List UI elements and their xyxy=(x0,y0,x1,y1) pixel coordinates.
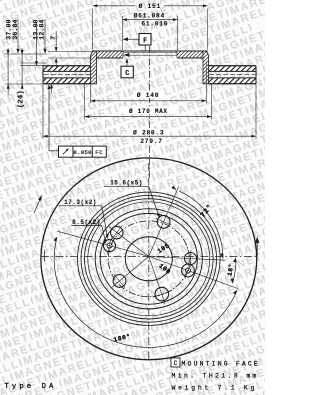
svg-text:Type DA: Type DA xyxy=(5,383,57,391)
svg-text:Min. TH21.8 mm: Min. TH21.8 mm xyxy=(172,373,259,380)
svg-text:7: 7 xyxy=(50,36,57,40)
svg-text:C: C xyxy=(174,360,178,367)
svg-text:Ø61.084: Ø61.084 xyxy=(134,12,165,20)
svg-text:C: C xyxy=(125,70,130,78)
svg-text:Weight 7.1 Kg: Weight 7.1 Kg xyxy=(172,385,258,392)
svg-text:Ø 140: Ø 140 xyxy=(137,91,159,99)
svg-text:(24): (24) xyxy=(18,90,26,108)
svg-text:0.050: 0.050 xyxy=(73,149,92,156)
svg-text:12.84: 12.84 xyxy=(38,19,45,39)
svg-text:279.7: 279.7 xyxy=(140,138,162,145)
svg-text:Ø 151: Ø 151 xyxy=(139,2,161,10)
svg-text:61.010: 61.010 xyxy=(141,21,168,28)
svg-text:MOUNTING FACE: MOUNTING FACE xyxy=(182,361,260,368)
svg-text:17.3(x2): 17.3(x2) xyxy=(64,199,97,206)
svg-text:8.5(x2): 8.5(x2) xyxy=(72,219,101,226)
svg-text:15.6(x5): 15.6(x5) xyxy=(110,179,143,186)
svg-text:F: F xyxy=(143,37,147,45)
svg-text:Ø 280.3: Ø 280.3 xyxy=(133,129,164,137)
svg-text:Ø 170 MAX: Ø 170 MAX xyxy=(129,108,168,115)
svg-text:FC: FC xyxy=(95,149,103,156)
